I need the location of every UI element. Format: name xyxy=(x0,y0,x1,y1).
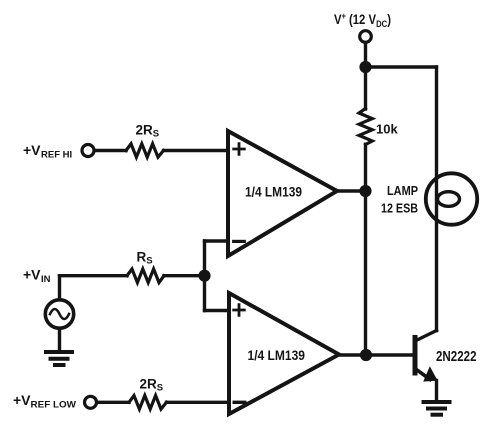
wire: 10k to node A xyxy=(364,144,367,191)
label LAMP 12 ESB xyxy=(381,184,418,216)
wire: VIN horizontal xyxy=(60,274,128,277)
node: V+ rail junction xyxy=(359,61,371,73)
terminal V+ xyxy=(360,31,372,43)
ground (source) xyxy=(46,352,72,365)
wire: bracket vertical xyxy=(203,241,206,311)
wire: junction down to 10k xyxy=(364,67,367,109)
node C: input junction xyxy=(198,270,210,282)
ground (emitter) xyxy=(424,402,450,415)
terminal +VREF LOW xyxy=(85,396,97,408)
wire: 2RS to U1 plus input xyxy=(164,149,229,152)
wire: VREF LOW terminal to 2RS xyxy=(97,401,129,404)
resistor R1 10k xyxy=(359,109,372,145)
wire: source to ground xyxy=(58,329,61,352)
op-amp U2 1/4 LM139 xyxy=(229,293,339,414)
wire: node B to transistor base xyxy=(366,353,413,356)
wire: RS to node C xyxy=(164,274,205,277)
transistor Q1 2N2222 xyxy=(415,331,438,382)
wire: bracket to U1 minus xyxy=(205,239,229,242)
svg-text:REF LOW: REF LOW xyxy=(31,400,77,410)
lamp DS1 xyxy=(426,173,477,224)
wire: 2RS to U2 minus input xyxy=(167,401,230,404)
resistor R2 RS xyxy=(127,269,164,283)
wire: bracket to U2 plus xyxy=(205,309,230,312)
wire: U1 output xyxy=(337,189,366,192)
svg-text:12 ESB: 12 ESB xyxy=(381,202,418,216)
wire: right rail down through lamp to collector xyxy=(435,67,438,331)
wire: rail node A to node B xyxy=(364,191,367,355)
wire: U2 output xyxy=(339,353,366,356)
svg-text:+V: +V xyxy=(13,392,31,408)
wire: VIN drop to source xyxy=(58,276,61,300)
svg-text:1/4 LM139: 1/4 LM139 xyxy=(245,185,302,200)
wire: VREF HI terminal to 2RS xyxy=(94,149,126,152)
source V1 sine xyxy=(45,300,73,328)
svg-text:10k: 10k xyxy=(376,122,398,137)
resistor 2RS (upper) xyxy=(126,144,164,157)
wire: top horizontal to right rail xyxy=(366,65,437,68)
terminal +VREF HI xyxy=(82,145,94,157)
wire: V+ terminal to rail xyxy=(364,43,367,68)
op-amp U1 1/4 LM139 xyxy=(228,131,337,256)
wire: emitter to ground xyxy=(435,381,438,402)
svg-text:2N2222: 2N2222 xyxy=(436,349,477,365)
node A: comparator 1 output xyxy=(359,185,371,197)
node B: comparator 2 output xyxy=(360,349,372,361)
svg-text:1/4 LM139: 1/4 LM139 xyxy=(248,348,306,363)
svg-text:LAMP: LAMP xyxy=(387,184,418,198)
resistor 2RS (lower) xyxy=(129,396,167,410)
